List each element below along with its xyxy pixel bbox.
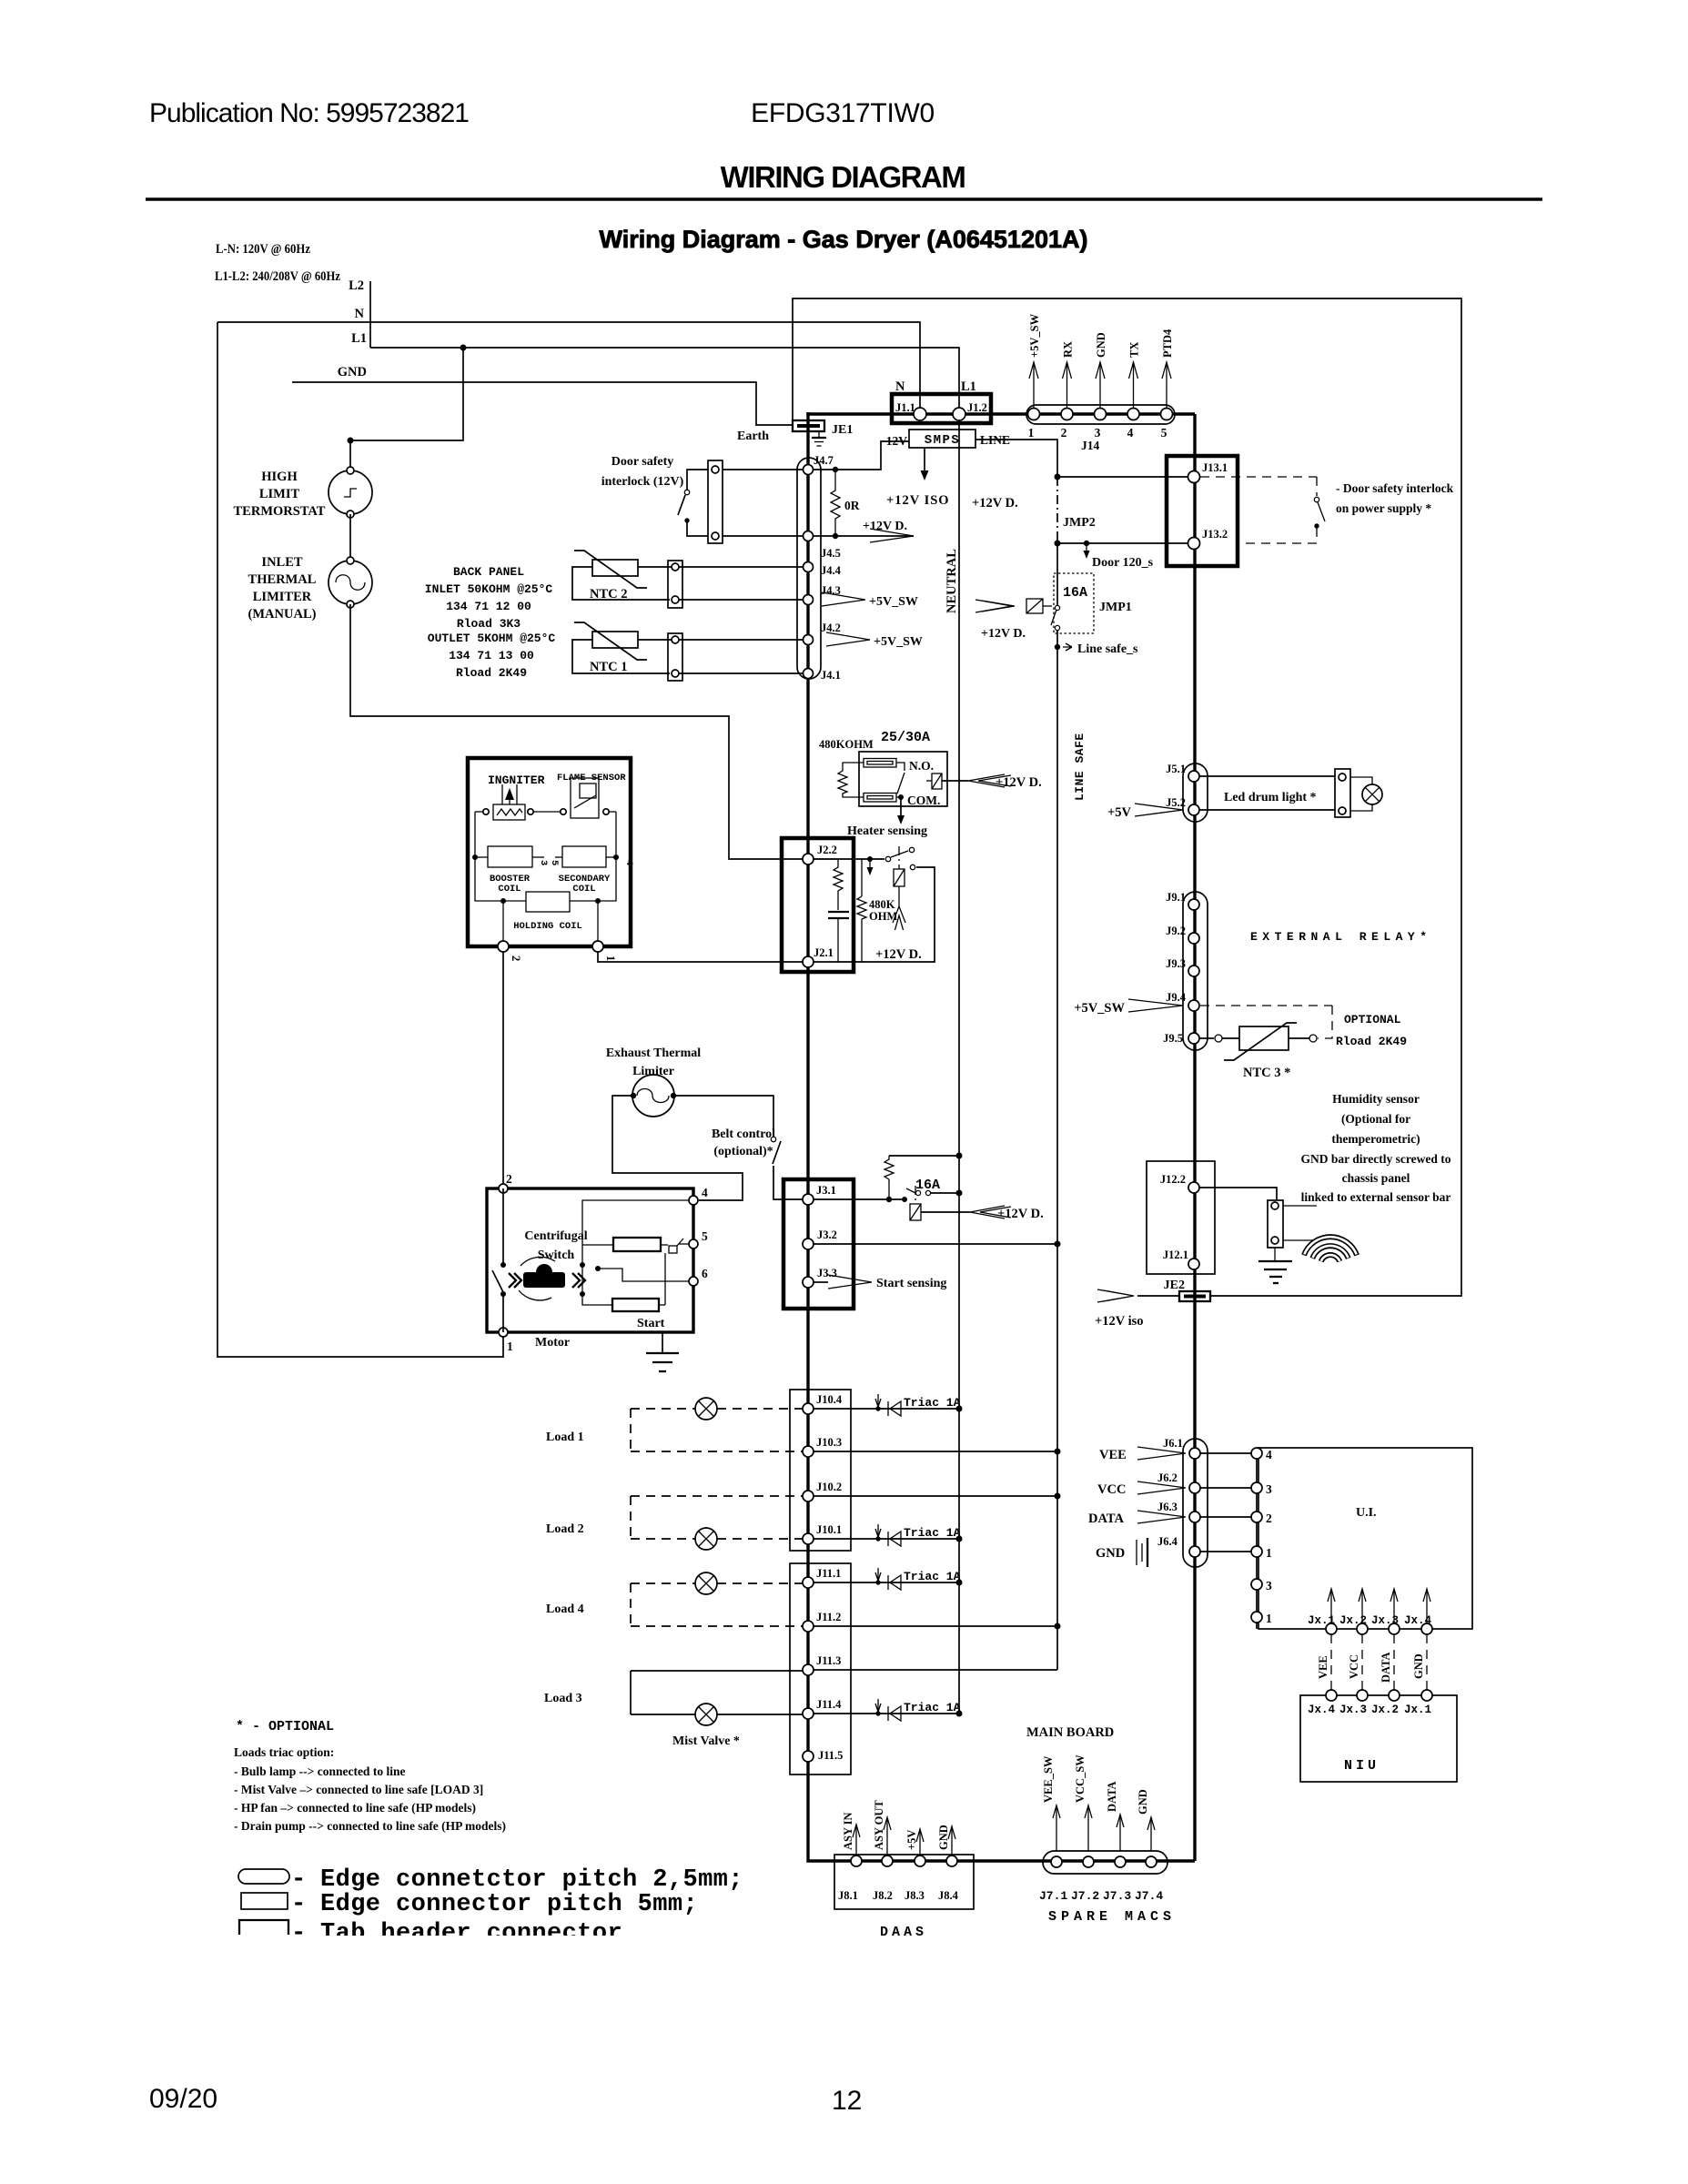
svg-text:OUTLET 5KOHM @25°C: OUTLET 5KOHM @25°C xyxy=(428,632,556,645)
svg-text:linked to external sensor bar: linked to external sensor bar xyxy=(1301,1190,1451,1204)
wire limiter to J2.2 xyxy=(350,604,803,859)
wire L1 branch to limiters xyxy=(350,348,463,470)
svg-text:6: 6 xyxy=(702,1267,708,1280)
svg-text:480KOHM: 480KOHM xyxy=(819,738,874,751)
svg-text:3: 3 xyxy=(1266,1579,1272,1592)
holding coil xyxy=(526,892,570,912)
svg-text:1: 1 xyxy=(1266,1546,1272,1560)
svg-text:N: N xyxy=(355,307,365,321)
switch belt control xyxy=(771,1137,775,1141)
svg-text:J13.2: J13.2 xyxy=(1202,528,1228,541)
svg-text:HIGH: HIGH xyxy=(261,470,298,484)
svg-text:J6.2: J6.2 xyxy=(1157,1471,1178,1484)
heater sensing arrow xyxy=(900,797,902,817)
svg-text:INGNITER: INGNITER xyxy=(488,773,545,787)
legend: tab header connector xyxy=(239,1920,288,1935)
svg-text:+12V ISO: +12V ISO xyxy=(886,493,950,508)
Jx arrows up xyxy=(1330,1590,1332,1623)
dashed Jx to NIU xyxy=(1330,1634,1332,1690)
svg-text:WIRING DIAGRAM: WIRING DIAGRAM xyxy=(721,160,965,194)
svg-text:Start sensing: Start sensing xyxy=(876,1277,946,1290)
door interlock switch xyxy=(687,470,708,490)
connector J14 xyxy=(1026,405,1175,424)
svg-text:Jx.4: Jx.4 xyxy=(1308,1704,1336,1716)
svg-text:* - OPTIONAL: * - OPTIONAL xyxy=(236,1719,334,1734)
connector J10 xyxy=(790,1390,851,1551)
svg-text:J7.4: J7.4 xyxy=(1135,1889,1163,1903)
svg-text:on power supply *: on power supply * xyxy=(1336,501,1431,515)
svg-text:+5V_SW: +5V_SW xyxy=(1028,313,1041,358)
svg-text:N.O.: N.O. xyxy=(909,759,934,773)
svg-text:GND: GND xyxy=(937,1825,950,1850)
svg-text:+12V D.: +12V D. xyxy=(972,496,1018,511)
svg-text:EFDG317TIW0: EFDG317TIW0 xyxy=(751,98,935,128)
igniter internal loop xyxy=(475,812,503,901)
svg-text:GND: GND xyxy=(1412,1653,1425,1679)
svg-text:Start: Start xyxy=(637,1317,665,1330)
svg-text:J14: J14 xyxy=(1081,439,1100,452)
connector J12 xyxy=(1147,1161,1215,1274)
relay switch N.O./COM. xyxy=(896,763,905,771)
svg-text:+12V D.: +12V D. xyxy=(863,520,907,533)
wire GND to JE1 xyxy=(292,382,793,425)
svg-text:OPTIONAL: OPTIONAL xyxy=(1344,1013,1401,1026)
wire J4.3 +5V_SW tag xyxy=(822,592,865,606)
svg-text:Door 120_s: Door 120_s xyxy=(1092,556,1154,570)
svg-text:+12V iso: +12V iso xyxy=(1095,1314,1144,1329)
svg-text:3: 3 xyxy=(1266,1482,1272,1496)
svg-text:EXTERNAL RELAY*: EXTERNAL RELAY* xyxy=(1250,930,1432,944)
wire SMPS LINE to JMP2 column xyxy=(975,440,1057,477)
svg-text:SMPS: SMPS xyxy=(925,433,961,448)
connector J11 xyxy=(790,1563,851,1774)
svg-text:J3.3: J3.3 xyxy=(817,1267,837,1279)
connector J5 xyxy=(1183,763,1208,822)
svg-text:Edge connetctor pitch 2,5mm;: Edge connetctor pitch 2,5mm; xyxy=(320,1866,743,1894)
svg-text:VEE_SW: VEE_SW xyxy=(1042,1755,1055,1803)
svg-text:16A: 16A xyxy=(1063,585,1087,601)
humidity sensor element xyxy=(1283,1205,1317,1207)
wire J3.3 start sensing tag xyxy=(814,1281,828,1283)
svg-text:J2.2: J2.2 xyxy=(817,844,837,856)
relay coil with +12V D. feed xyxy=(932,773,942,789)
svg-text:134 71 13 00: 134 71 13 00 xyxy=(449,649,534,662)
net +12V iso tag xyxy=(1097,1289,1134,1302)
svg-text:Rload 2K49: Rload 2K49 xyxy=(456,666,527,680)
svg-text:SPARE MACS: SPARE MACS xyxy=(1048,1909,1176,1925)
svg-text:134 71 12 00: 134 71 12 00 xyxy=(446,600,531,613)
svg-text:J2.1: J2.1 xyxy=(814,946,834,959)
svg-text:U.I.: U.I. xyxy=(1356,1506,1377,1520)
inlet thermal limiter (manual) xyxy=(329,561,372,604)
junction L1 branch xyxy=(460,345,467,351)
svg-text:J9.5: J9.5 xyxy=(1163,1032,1183,1045)
svg-text:1: 1 xyxy=(1266,1612,1272,1625)
svg-text:Jx.3: Jx.3 xyxy=(1339,1704,1367,1716)
svg-text:J7.2: J7.2 xyxy=(1071,1889,1099,1903)
svg-text:Heater sensing: Heater sensing xyxy=(847,824,927,838)
wire J12.2 to humidity sensor xyxy=(1199,1188,1277,1200)
motor internal windings xyxy=(582,1200,689,1305)
svg-text:GND bar directly screwed to: GND bar directly screwed to xyxy=(1301,1152,1451,1166)
NTC1 connector xyxy=(668,633,682,681)
svg-text:LIMIT: LIMIT xyxy=(259,487,300,501)
thick main rail from bus corner down through J4 J2 J3 J10 J11 xyxy=(808,412,1195,1861)
svg-text:Exhaust Thermal: Exhaust Thermal xyxy=(606,1046,701,1060)
wire J3.2 to line safe xyxy=(814,1243,1057,1245)
svg-text:Switch: Switch xyxy=(538,1249,575,1262)
svg-text:TX: TX xyxy=(1128,342,1141,358)
svg-text:J8.3: J8.3 xyxy=(905,1889,925,1902)
svg-text:12V: 12V xyxy=(886,434,908,448)
svg-text:Load 2: Load 2 xyxy=(546,1522,584,1536)
svg-text:J3.1: J3.1 xyxy=(816,1184,836,1197)
svg-text:J10.4: J10.4 xyxy=(816,1393,843,1406)
svg-text:-: - xyxy=(291,1866,307,1894)
svg-text:J8.2: J8.2 xyxy=(873,1889,893,1902)
igniter assembly box xyxy=(468,758,631,946)
svg-text:DATA: DATA xyxy=(1106,1781,1118,1812)
svg-text:J10.2: J10.2 xyxy=(816,1481,842,1493)
header rule xyxy=(146,197,1542,201)
wire left rail N return xyxy=(217,322,503,1357)
jumper JMP2 dash-dot xyxy=(1056,477,1058,543)
svg-text:JMP1: JMP1 xyxy=(1099,601,1132,614)
+12V ISO arrow from SMPS xyxy=(924,448,925,472)
ground below JE1 xyxy=(818,431,820,438)
wire between limiters xyxy=(349,514,351,561)
svg-text:- Mist Valve –> connected to l: - Mist Valve –> connected to line safe [… xyxy=(234,1783,483,1796)
svg-text:Publication No: 5995723821: Publication No: 5995723821 xyxy=(149,98,469,128)
SMPS box xyxy=(909,430,975,448)
svg-text:L2: L2 xyxy=(349,278,364,293)
svg-text:L1-L2: 240/208V @ 60Hz: L1-L2: 240/208V @ 60Hz xyxy=(215,269,340,284)
svg-text:DATA: DATA xyxy=(1380,1652,1392,1683)
svg-text:3: 3 xyxy=(538,860,549,865)
svg-text:chassis panel: chassis panel xyxy=(1342,1171,1410,1185)
J14 pin2 arrow RX xyxy=(1066,362,1068,408)
wire L1 horizontal xyxy=(370,348,959,409)
svg-text:Earth: Earth xyxy=(737,430,769,443)
svg-text:- HP fan –> connected to line: - HP fan –> connected to line safe (HP m… xyxy=(234,1801,476,1815)
svg-text:J10.1: J10.1 xyxy=(816,1523,842,1536)
svg-text:J4.5: J4.5 xyxy=(821,547,841,560)
svg-text:ASY OUT: ASY OUT xyxy=(873,1800,885,1850)
svg-text:J6.4: J6.4 xyxy=(1157,1535,1178,1548)
svg-text:Door safety: Door safety xyxy=(612,455,674,469)
node Line safe_s xyxy=(1055,644,1060,650)
svg-text:VCC: VCC xyxy=(1097,1482,1126,1497)
svg-text:L-N: 120V @ 60Hz: L-N: 120V @ 60Hz xyxy=(216,242,310,257)
svg-text:Led drum light *: Led drum light * xyxy=(1224,791,1317,804)
svg-text:GND: GND xyxy=(338,365,367,379)
svg-text:J9.2: J9.2 xyxy=(1166,925,1186,937)
svg-text:J11.4: J11.4 xyxy=(816,1698,842,1711)
high limit thermostat xyxy=(329,470,372,514)
svg-text:NIU: NIU xyxy=(1344,1758,1380,1774)
wire J10.3 to line safe xyxy=(814,1451,1057,1452)
svg-text:J3.2: J3.2 xyxy=(817,1228,837,1241)
svg-text:2: 2 xyxy=(506,1172,512,1186)
J14 pin5 arrow PTD4 xyxy=(1166,362,1167,408)
relay coil in J2 branch xyxy=(898,846,900,869)
svg-text:Rload 2K49: Rload 2K49 xyxy=(1336,1035,1407,1048)
connector J8 DAAS xyxy=(834,1855,974,1909)
svg-text:- Drain pump --> connected to: - Drain pump --> connected to line safe … xyxy=(234,1819,506,1833)
motor ground xyxy=(662,1332,663,1353)
svg-text:+12V D.: +12V D. xyxy=(981,627,1026,641)
svg-text:Triac 1A: Triac 1A xyxy=(904,1701,961,1714)
net VCC xyxy=(1137,1481,1186,1494)
svg-text:+5V: +5V xyxy=(905,1830,918,1850)
svg-text:INLET: INLET xyxy=(261,555,302,570)
J2.1 external loop to switch upper contact xyxy=(814,867,935,962)
svg-text:themperometric): themperometric) xyxy=(1331,1132,1420,1146)
led drum light wires xyxy=(1199,775,1335,777)
resistor 480KOHM xyxy=(838,763,864,797)
motor box xyxy=(487,1188,693,1332)
svg-text:5: 5 xyxy=(549,860,560,865)
svg-text:J11.1: J11.1 xyxy=(816,1567,841,1580)
svg-text:HOLDING COIL: HOLDING COIL xyxy=(513,921,582,932)
earth tab JE1 xyxy=(793,420,824,431)
svg-text:J4.4: J4.4 xyxy=(821,564,842,577)
svg-text:J6.3: J6.3 xyxy=(1157,1501,1178,1513)
rotor symbol xyxy=(523,1272,565,1288)
UI bottom pins Jx xyxy=(1326,1623,1337,1634)
lamp drum light xyxy=(1350,777,1372,784)
svg-text:+5V: +5V xyxy=(1107,805,1132,820)
node at J13.1 level xyxy=(1055,474,1061,480)
svg-text:2: 2 xyxy=(510,955,522,961)
wire J11.3 to line safe end xyxy=(814,1669,1057,1671)
resistor NTC1 xyxy=(592,632,638,648)
wire J4.7 to SMPS 12V xyxy=(814,441,909,470)
svg-text:Motor: Motor xyxy=(535,1336,570,1350)
igniter heating element xyxy=(493,804,525,820)
triac J11.4 xyxy=(814,1713,959,1714)
svg-text:COM.: COM. xyxy=(907,794,940,807)
dashed link to door switch on power supply xyxy=(1200,476,1317,478)
svg-text:Triac 1A: Triac 1A xyxy=(904,1396,961,1410)
svg-text:Jx.2: Jx.2 xyxy=(1371,1704,1399,1716)
svg-text:Edge connector pitch 5mm;: Edge connector pitch 5mm; xyxy=(320,1891,698,1918)
svg-text:VCC: VCC xyxy=(1348,1654,1360,1679)
svg-text:+5V_SW: +5V_SW xyxy=(874,635,923,649)
svg-text:Centrifugal: Centrifugal xyxy=(524,1229,587,1243)
svg-text:480K: 480K xyxy=(869,898,895,911)
svg-text:J7.3: J7.3 xyxy=(1103,1889,1131,1903)
line-safe column below JMP2 xyxy=(1056,543,1058,606)
resistor 0R xyxy=(833,467,838,472)
svg-text:4: 4 xyxy=(1127,426,1134,440)
net +5V tag at J5.2 xyxy=(1135,804,1183,816)
svg-text:- Door safety interlock: - Door safety interlock xyxy=(1336,481,1454,495)
svg-text:VEE: VEE xyxy=(1099,1448,1127,1462)
svg-text:NTC 1: NTC 1 xyxy=(590,660,628,674)
svg-text:J13.1: J13.1 xyxy=(1202,461,1228,474)
J8 pin arrows xyxy=(855,1825,857,1855)
svg-text:DAAS: DAAS xyxy=(880,1925,927,1940)
svg-text:GND: GND xyxy=(1137,1789,1149,1815)
wire limiter right to belt control xyxy=(674,1096,773,1137)
svg-text:J4.7: J4.7 xyxy=(814,454,834,467)
svg-text:ASY IN: ASY IN xyxy=(842,1812,854,1850)
svg-text:LINE SAFE: LINE SAFE xyxy=(1073,733,1087,801)
J7 pin arrows xyxy=(1056,1806,1057,1851)
motor line switch xyxy=(502,1188,504,1263)
connector J9 xyxy=(1183,892,1208,1050)
svg-text:Line safe_s: Line safe_s xyxy=(1077,642,1138,656)
ground humidity sensor xyxy=(1274,1248,1276,1260)
triac J10.1 xyxy=(814,1538,959,1540)
svg-text:BACK PANEL: BACK PANEL xyxy=(453,565,524,579)
svg-text:25/30A: 25/30A xyxy=(881,730,930,745)
wire limiter left to motor pin4 xyxy=(612,1096,743,1200)
svg-text:+5V_SW: +5V_SW xyxy=(1074,1001,1125,1016)
wire J4.5 +12V D. tag xyxy=(814,535,914,537)
triac J10.4 xyxy=(814,1408,959,1410)
fuse terminal lower xyxy=(864,794,896,803)
J14 pin4 arrow TX xyxy=(1133,362,1135,408)
svg-text:Humidity sensor: Humidity sensor xyxy=(1332,1092,1420,1106)
svg-text:Load 1: Load 1 xyxy=(546,1431,584,1444)
svg-text:Triac 1A: Triac 1A xyxy=(904,1526,961,1540)
svg-text:NTC 3 *: NTC 3 * xyxy=(1243,1066,1290,1080)
svg-text:JE2: JE2 xyxy=(1164,1279,1185,1292)
flame sensor xyxy=(571,778,599,818)
svg-text:J12.2: J12.2 xyxy=(1160,1173,1186,1186)
svg-text:COIL: COIL xyxy=(572,884,595,895)
J14 pin3 arrow GND xyxy=(1099,362,1101,408)
connector J2 xyxy=(782,838,854,972)
svg-text:1: 1 xyxy=(1028,426,1035,440)
svg-text:MAIN BOARD: MAIN BOARD xyxy=(1026,1725,1114,1740)
svg-text:J4.2: J4.2 xyxy=(821,622,841,634)
svg-text:J12.1: J12.1 xyxy=(1163,1249,1188,1261)
svg-text:JMP2: JMP2 xyxy=(1063,516,1096,530)
fuse 16A branch from J3.1 xyxy=(814,1198,905,1200)
svg-text:J9.3: J9.3 xyxy=(1166,957,1186,970)
svg-text:J1.1: J1.1 xyxy=(895,401,915,414)
svg-text:5: 5 xyxy=(702,1229,708,1243)
svg-text:Rload 3K3: Rload 3K3 xyxy=(457,617,521,631)
svg-text:Belt control: Belt control xyxy=(712,1127,775,1141)
wire interlock to J4.7 xyxy=(723,469,804,470)
exhaust thermal limiter xyxy=(632,1075,674,1117)
svg-text:+12V D.: +12V D. xyxy=(996,775,1042,790)
J14 pin1 arrow +5V_SW xyxy=(1033,362,1035,408)
resistor NTC3 xyxy=(1199,1037,1214,1039)
svg-text:DATA: DATA xyxy=(1088,1512,1124,1526)
svg-text:N: N xyxy=(895,379,905,394)
connector J3 xyxy=(783,1179,854,1309)
svg-text:VCC_SW: VCC_SW xyxy=(1074,1754,1087,1803)
svg-text:GND: GND xyxy=(1096,1546,1125,1561)
wire igniter pin2 to motor pin2 xyxy=(502,952,504,1184)
svg-text:THERMAL: THERMAL xyxy=(248,572,317,587)
chassis outline (main board border) xyxy=(793,298,1461,1296)
svg-text:-: - xyxy=(291,1891,307,1918)
svg-text:PTD4: PTD4 xyxy=(1161,329,1174,358)
net DATA xyxy=(1137,1511,1186,1523)
svg-text:5: 5 xyxy=(1161,426,1167,440)
svg-text:J9.1: J9.1 xyxy=(1166,891,1186,904)
svg-text:+12V D.: +12V D. xyxy=(875,947,922,962)
fuse terminal upper xyxy=(864,759,896,768)
svg-text:VEE: VEE xyxy=(1317,1655,1329,1679)
drum light connector xyxy=(1335,769,1350,817)
svg-text:GND: GND xyxy=(1095,332,1107,358)
wire N horizontal xyxy=(217,322,920,409)
svg-text:J7.1: J7.1 xyxy=(1039,1889,1067,1903)
svg-text:J8.4: J8.4 xyxy=(938,1889,959,1902)
connector J6 xyxy=(1183,1439,1208,1567)
triac J11.1 xyxy=(814,1582,959,1583)
svg-text:J11.2: J11.2 xyxy=(816,1611,841,1623)
wire interlock to J4.5 xyxy=(723,535,804,537)
dashed optional link J9.4 xyxy=(1200,1005,1332,1006)
connector J13 xyxy=(1167,456,1238,566)
U.I. board box xyxy=(1258,1448,1472,1629)
svg-text:J11.3: J11.3 xyxy=(816,1654,841,1667)
humidity sensor connector xyxy=(1268,1200,1283,1248)
svg-text:2: 2 xyxy=(1266,1512,1272,1525)
svg-text:Load 4: Load 4 xyxy=(546,1603,584,1616)
legend: edge connector pitch 5mm xyxy=(241,1893,288,1909)
svg-text:12: 12 xyxy=(832,2086,862,2116)
resistor NTC2 xyxy=(592,560,638,576)
wire L2 drop xyxy=(369,281,371,348)
connector J7 SPARE MACS xyxy=(1043,1851,1167,1874)
svg-text:(optional)*: (optional)* xyxy=(713,1145,773,1158)
UI left pins xyxy=(1256,1456,1258,1629)
svg-text:2: 2 xyxy=(1061,426,1067,440)
J2.2 external wire with relay contacts xyxy=(814,858,884,860)
svg-text:Jx.4: Jx.4 xyxy=(1404,1614,1432,1627)
svg-text:LIMITER: LIMITER xyxy=(253,590,312,604)
svg-text:3: 3 xyxy=(1095,426,1101,440)
start tap to pin6 xyxy=(595,1266,601,1271)
resistor 480K OHM branch xyxy=(861,859,863,896)
NIU board box xyxy=(1300,1695,1457,1782)
net +5V_SW tag at J9.4 xyxy=(1128,999,1183,1012)
svg-text:4: 4 xyxy=(1266,1448,1272,1461)
node Door 120_s tap xyxy=(1084,541,1089,546)
fuse JMP1 16A dotted box xyxy=(1054,573,1094,633)
svg-text:1: 1 xyxy=(507,1340,513,1353)
svg-text:Wiring Diagram - Gas Dryer (A0: Wiring Diagram - Gas Dryer (A06451201A) xyxy=(600,226,1088,253)
svg-text:(Optional for: (Optional for xyxy=(1341,1112,1410,1126)
relay coil 16A branch xyxy=(910,1204,921,1220)
svg-text:Load 3: Load 3 xyxy=(544,1692,582,1705)
svg-text:INLET 50KOHM @25°C: INLET 50KOHM @25°C xyxy=(425,582,553,596)
svg-text:Triac 1A: Triac 1A xyxy=(904,1570,961,1583)
svg-text:0R: 0R xyxy=(844,499,860,512)
connector J1 xyxy=(892,394,991,423)
svg-text:09/20: 09/20 xyxy=(149,2084,217,2114)
svg-text:J1.2: J1.2 xyxy=(967,401,987,414)
svg-text:J11.5: J11.5 xyxy=(818,1749,843,1762)
NEUTRAL line xyxy=(958,420,960,1714)
svg-text:J9.4: J9.4 xyxy=(1166,991,1187,1004)
svg-text:J4.1: J4.1 xyxy=(821,669,841,682)
svg-text:Mist Valve *: Mist Valve * xyxy=(672,1734,740,1748)
door interlock connector xyxy=(708,460,723,543)
svg-text:Jx.1: Jx.1 xyxy=(1404,1704,1431,1716)
wire igniter pin1 to J2.1 xyxy=(598,952,803,962)
svg-text:L1: L1 xyxy=(351,331,367,346)
